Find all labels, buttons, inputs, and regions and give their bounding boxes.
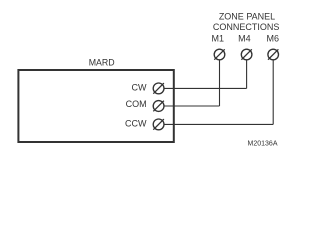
label CW [132,83,147,93]
terminal M6 [268,49,279,60]
label M1 [212,33,225,43]
svg-text:CONNECTIONS: CONNECTIONS [213,22,280,32]
wire CCW to M6 vertical [272,60,274,125]
label ZONE PANEL CONNECTIONS [213,12,280,32]
svg-text:MARD: MARD [89,57,115,67]
svg-text:M20136A: M20136A [248,141,278,148]
terminal CW [153,83,164,94]
label M20136A [248,141,278,148]
svg-text:M4: M4 [238,33,251,43]
label CCW [125,118,147,128]
svg-text:COM: COM [126,99,147,109]
label COM [126,99,147,109]
terminal CCW [153,119,164,130]
svg-text:M1: M1 [212,33,225,43]
terminal M1 [214,49,225,60]
wire COM to M1 horizontal [164,105,220,107]
wire COM to M1 vertical [219,60,221,106]
label MARD [89,57,115,67]
wire CW to M4 horizontal [164,87,247,89]
svg-text:M6: M6 [267,33,280,43]
wire CW to M4 vertical [246,60,248,89]
wire CCW to M6 horizontal [164,123,273,125]
terminal COM [153,101,164,112]
svg-text:CW: CW [132,83,147,93]
svg-text:CCW: CCW [125,118,147,128]
actuator box MARD [18,70,173,142]
svg-text:ZONE PANEL: ZONE PANEL [219,12,275,22]
label M6 [267,33,280,43]
terminal M4 [241,49,252,60]
label M4 [238,33,251,43]
